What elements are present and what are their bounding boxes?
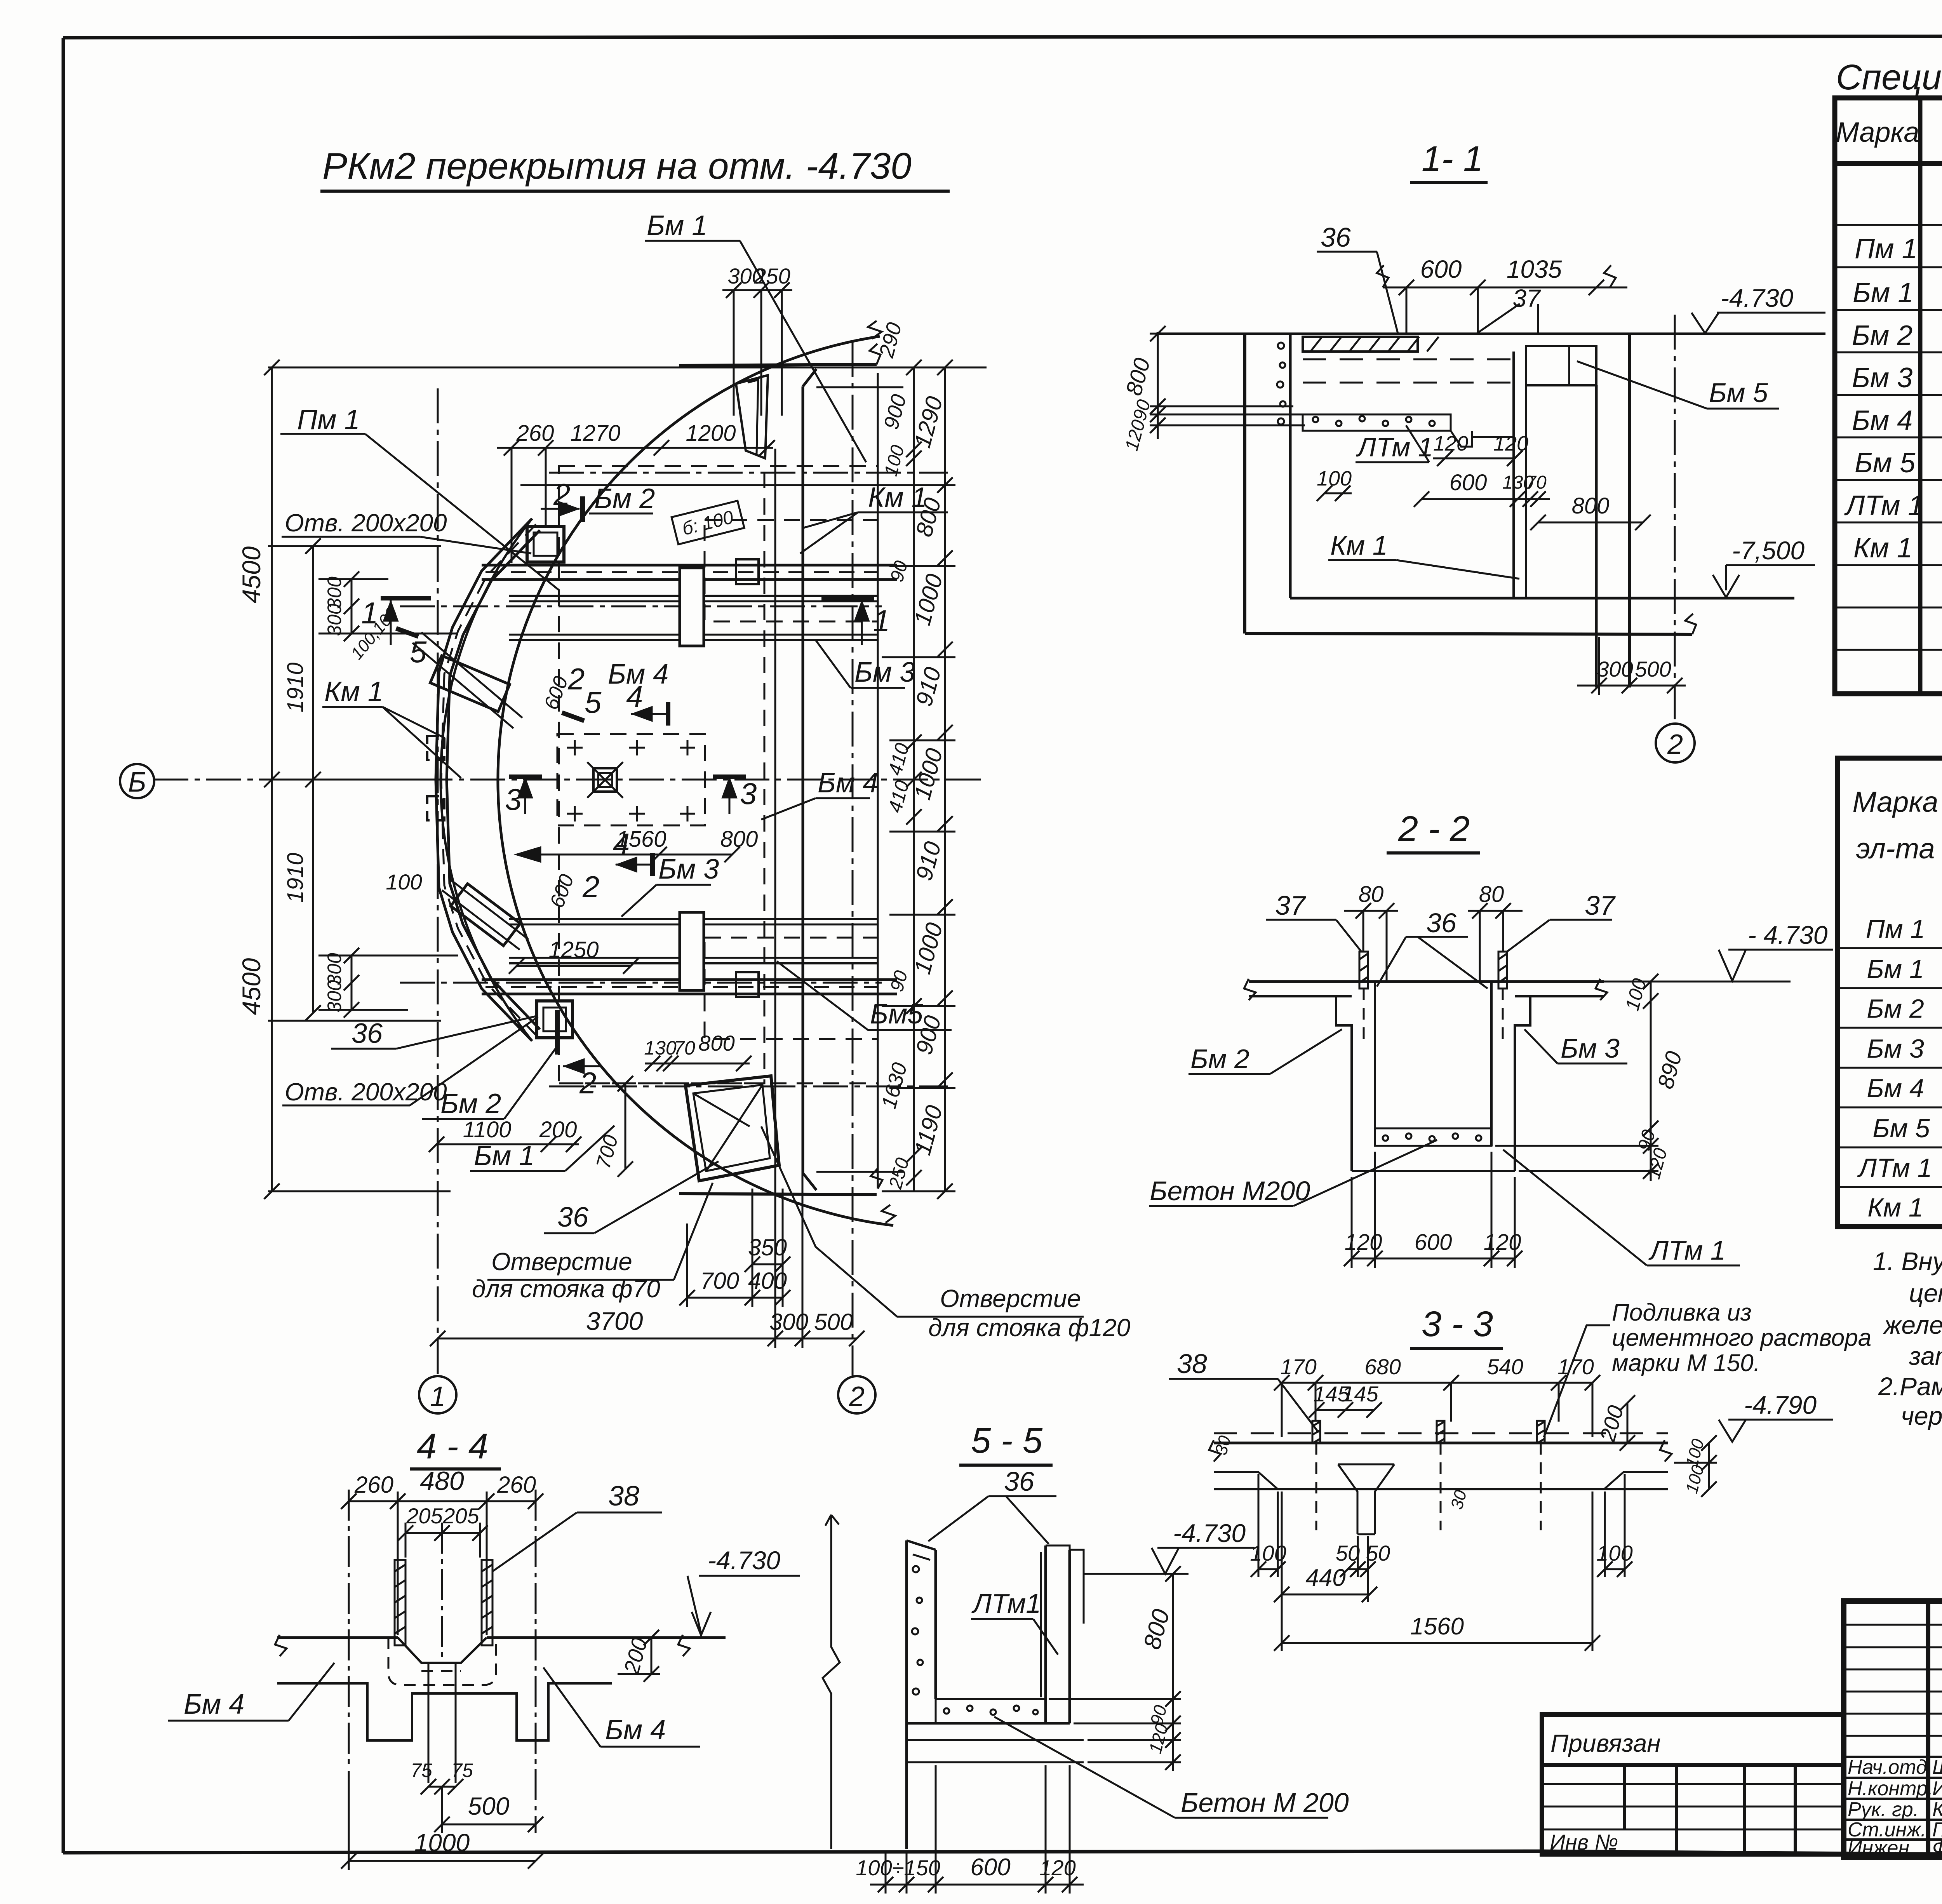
svg-text:120: 120 [1493, 432, 1528, 455]
svg-text:марки М 150.: марки М 150. [1612, 1350, 1760, 1377]
svg-text:37: 37 [1512, 284, 1541, 312]
svg-text:1: 1 [361, 596, 378, 630]
svg-text:300: 300 [1597, 657, 1633, 681]
svg-text:железнением на участке уста: железнением на участке установки решеток… [1883, 1311, 1942, 1339]
svg-text:Иванов: Иванов [1932, 1777, 1942, 1800]
svg-text:75: 75 [411, 1760, 432, 1781]
svg-text:200: 200 [539, 1117, 577, 1142]
svg-text:Инжен.: Инжен. [1848, 1837, 1915, 1859]
svg-text:5: 5 [410, 635, 427, 669]
svg-text:100: 100 [1596, 1541, 1632, 1565]
svg-text:800: 800 [698, 1031, 734, 1055]
svg-text:Пм 1: Пм 1 [1855, 233, 1918, 265]
svg-text:3700: 3700 [586, 1307, 643, 1335]
svg-text:680: 680 [1364, 1354, 1401, 1379]
svg-text:4500: 4500 [237, 546, 266, 603]
svg-text:1910: 1910 [283, 853, 308, 903]
svg-text:ЛТм 1: ЛТм 1 [1844, 490, 1923, 521]
svg-text:500: 500 [1635, 657, 1671, 681]
svg-text:Марка: Марка [1836, 117, 1919, 148]
svg-text:80: 80 [1479, 882, 1504, 907]
svg-text:Отверстие: Отверстие [940, 1284, 1081, 1312]
svg-text:260: 260 [497, 1472, 536, 1498]
svg-text:-4.730: -4.730 [1173, 1519, 1246, 1547]
svg-text:100: 100 [1317, 467, 1352, 490]
svg-text:Бм 3: Бм 3 [1852, 362, 1912, 393]
svg-text:чертежам.: чертежам. [1901, 1401, 1942, 1430]
svg-text:Бм 5: Бм 5 [1855, 447, 1916, 479]
svg-text:1. Внутренние поверхности лот: 1. Внутренние поверхности лотков оштукат… [1873, 1247, 1942, 1276]
svg-text:600: 600 [1450, 470, 1487, 495]
svg-text:1100: 1100 [463, 1117, 512, 1142]
svg-text:- 4.730: - 4.730 [1748, 921, 1828, 949]
svg-text:для стояка ф70: для стояка ф70 [472, 1275, 660, 1303]
svg-text:700: 700 [700, 1268, 739, 1294]
svg-text:800: 800 [1572, 493, 1610, 519]
svg-text:Бетон М200: Бетон М200 [1150, 1176, 1310, 1206]
svg-text:80: 80 [1359, 882, 1384, 907]
svg-text:2: 2 [849, 1381, 865, 1412]
svg-text:Марка: Марка [1853, 786, 1939, 818]
svg-text:Км 1: Км 1 [324, 676, 383, 707]
svg-text:затереть цементным растворо: затереть цементным раствором. [1909, 1342, 1942, 1370]
svg-text:2: 2 [1667, 729, 1683, 760]
svg-text:2: 2 [567, 662, 585, 696]
svg-text:205: 205 [442, 1504, 479, 1528]
svg-text:3 - 3: 3 - 3 [1422, 1304, 1493, 1344]
svg-text:5: 5 [585, 685, 602, 719]
svg-text:Бм 3: Бм 3 [854, 657, 915, 688]
svg-text:Бм 1: Бм 1 [1867, 954, 1924, 984]
svg-text:36: 36 [352, 1018, 383, 1049]
svg-text:170: 170 [1280, 1354, 1316, 1379]
svg-text:500: 500 [814, 1309, 853, 1335]
svg-text:100: 100 [386, 870, 422, 894]
svg-text:Н.контр.: Н.контр. [1848, 1777, 1933, 1800]
svg-text:Спецификация к схеме расположе: Спецификация к схеме расположения элемен… [1836, 57, 1942, 97]
svg-text:120: 120 [1433, 432, 1468, 455]
svg-text:Б: Б [128, 767, 146, 798]
svg-text:ЛТм 1: ЛТм 1 [1356, 432, 1433, 462]
svg-text:Бм 3: Бм 3 [1867, 1034, 1924, 1063]
svg-text:цементного раствора: цементного раствора [1612, 1324, 1871, 1351]
svg-text:36: 36 [1426, 908, 1456, 938]
svg-text:Бм 2: Бм 2 [1190, 1044, 1249, 1074]
svg-text:440: 440 [1305, 1565, 1345, 1591]
svg-text:50: 50 [1336, 1541, 1360, 1565]
svg-text:120: 120 [1484, 1230, 1521, 1255]
svg-text:Пм 1: Пм 1 [297, 404, 360, 435]
svg-text:1270: 1270 [570, 421, 620, 446]
svg-text:36: 36 [1321, 222, 1351, 252]
svg-text:Кунцевич: Кунцевич [1932, 1798, 1942, 1821]
svg-text:36: 36 [1004, 1466, 1034, 1497]
svg-text:Отв. 200х200: Отв. 200х200 [285, 1078, 447, 1106]
svg-text:1560: 1560 [1410, 1613, 1464, 1640]
svg-text:2.Рамы шиберов установить: 2.Рамы шиберов установить по механически… [1878, 1372, 1942, 1401]
svg-text:1: 1 [873, 604, 890, 638]
svg-text:Бм 4: Бм 4 [608, 659, 668, 690]
svg-text:540: 540 [1487, 1354, 1523, 1379]
svg-text:170: 170 [1557, 1354, 1594, 1379]
svg-text:400: 400 [748, 1268, 787, 1294]
svg-text:1: 1 [430, 1381, 445, 1412]
svg-text:100: 100 [1250, 1541, 1286, 1565]
svg-text:ЛТм1: ЛТм1 [971, 1588, 1041, 1619]
svg-text:Км 1: Км 1 [1853, 533, 1912, 564]
svg-text:1250: 1250 [548, 937, 599, 962]
svg-text:2 - 2: 2 - 2 [1398, 809, 1470, 849]
svg-text:Рук. гр.: Рук. гр. [1848, 1798, 1919, 1821]
svg-text:50: 50 [1366, 1541, 1390, 1565]
svg-text:37: 37 [1275, 890, 1307, 921]
svg-text:36: 36 [557, 1202, 589, 1233]
svg-text:260: 260 [516, 421, 554, 446]
svg-text:эл-та: эл-та [1856, 832, 1935, 865]
svg-text:Привязан: Привязан [1550, 1729, 1661, 1757]
svg-text:300: 300 [324, 604, 345, 636]
svg-text:500: 500 [468, 1792, 510, 1820]
svg-text:4 - 4: 4 - 4 [417, 1427, 488, 1466]
svg-text:Бм 4: Бм 4 [818, 768, 878, 799]
svg-text:205: 205 [406, 1504, 443, 1528]
svg-text:600: 600 [1415, 1230, 1452, 1255]
svg-text:Подливка из: Подливка из [1612, 1299, 1752, 1326]
svg-text:5 - 5: 5 - 5 [971, 1421, 1043, 1460]
svg-text:Бм 3: Бм 3 [658, 854, 719, 885]
svg-text:100÷150: 100÷150 [856, 1855, 940, 1880]
svg-text:-4.730: -4.730 [708, 1546, 780, 1575]
svg-text:ЛТм 1: ЛТм 1 [1648, 1235, 1726, 1265]
svg-text:Бм 4: Бм 4 [1867, 1074, 1924, 1103]
svg-text:4: 4 [613, 827, 630, 861]
svg-text:1035: 1035 [1507, 255, 1562, 283]
svg-text:145: 145 [1342, 1382, 1378, 1406]
svg-text:Бм 3: Бм 3 [1561, 1033, 1620, 1063]
svg-text:300: 300 [769, 1309, 808, 1335]
svg-text:Фоменко: Фоменко [1932, 1837, 1942, 1859]
svg-text:600: 600 [970, 1854, 1010, 1881]
svg-text:для стояка ф120: для стояка ф120 [928, 1314, 1131, 1342]
svg-text:Км 1: Км 1 [1330, 530, 1388, 560]
svg-text:1000: 1000 [414, 1829, 470, 1857]
svg-text:4500: 4500 [237, 958, 266, 1015]
svg-text:РКм2 перекрытия на отм. -4.: РКм2 перекрытия на отм. -4.730 [322, 145, 912, 187]
svg-text:Бм 1: Бм 1 [1853, 277, 1913, 308]
svg-text:120: 120 [1345, 1230, 1382, 1255]
svg-text:Бм 2: Бм 2 [1867, 994, 1924, 1023]
svg-text:Бм 2: Бм 2 [440, 1088, 501, 1119]
svg-text:Бм 1: Бм 1 [474, 1140, 534, 1171]
svg-text:480: 480 [420, 1466, 464, 1496]
svg-text:600: 600 [1420, 255, 1462, 283]
svg-text:300: 300 [324, 980, 345, 1013]
svg-text:2: 2 [579, 1066, 596, 1100]
svg-text:ЛТм 1: ЛТм 1 [1857, 1153, 1932, 1183]
svg-text:-4.730: -4.730 [1721, 284, 1793, 312]
svg-text:38: 38 [1177, 1349, 1207, 1379]
svg-text:2: 2 [582, 870, 599, 904]
svg-text:-4.790: -4.790 [1744, 1391, 1817, 1419]
svg-text:Бм 5: Бм 5 [1709, 378, 1768, 408]
svg-text:3: 3 [505, 782, 522, 816]
svg-text:350: 350 [748, 1234, 787, 1260]
svg-text:Бм 5: Бм 5 [1872, 1114, 1930, 1143]
svg-text:Бм 2: Бм 2 [594, 483, 655, 514]
svg-text:Бм 1: Бм 1 [647, 210, 707, 241]
svg-text:Км 1: Км 1 [1867, 1193, 1923, 1222]
svg-text:70: 70 [1526, 472, 1547, 493]
svg-text:70: 70 [673, 1037, 695, 1059]
svg-text:Нач.отд.: Нач.отд. [1848, 1756, 1933, 1779]
svg-text:2: 2 [553, 477, 570, 512]
svg-text:Пм 1: Пм 1 [1866, 914, 1925, 944]
svg-text:Км 1: Км 1 [868, 482, 927, 513]
svg-text:Бм 4: Бм 4 [184, 1689, 244, 1720]
svg-text:3: 3 [740, 776, 757, 811]
svg-text:260: 260 [354, 1472, 393, 1498]
svg-text:Бм5: Бм5 [870, 999, 923, 1030]
svg-text:75: 75 [451, 1760, 473, 1781]
svg-text:Шейко: Шейко [1932, 1756, 1942, 1779]
svg-text:38: 38 [608, 1481, 639, 1512]
svg-text:1- 1: 1- 1 [1422, 139, 1483, 179]
svg-text:1200: 1200 [686, 421, 736, 446]
svg-text:Отверстие: Отверстие [491, 1248, 632, 1276]
svg-text:130: 130 [644, 1037, 677, 1059]
svg-text:1910: 1910 [283, 662, 308, 712]
svg-text:Бм 2: Бм 2 [1852, 320, 1912, 351]
svg-text:Бм 4: Бм 4 [605, 1714, 666, 1746]
svg-text:цементно-песчаным раствором: цементно-песчаным раствором состава 1:2 … [1909, 1279, 1942, 1307]
svg-text:Бм 4: Бм 4 [1852, 405, 1912, 436]
svg-text:Инв №: Инв № [1550, 1830, 1618, 1854]
svg-text:120: 120 [1039, 1855, 1075, 1880]
svg-text:-7,500: -7,500 [1732, 536, 1805, 565]
svg-text:37: 37 [1585, 890, 1616, 921]
svg-text:800: 800 [720, 827, 758, 852]
svg-text:Бетон М 200: Бетон М 200 [1181, 1787, 1349, 1818]
svg-text:Отв. 200х200: Отв. 200х200 [285, 509, 447, 537]
